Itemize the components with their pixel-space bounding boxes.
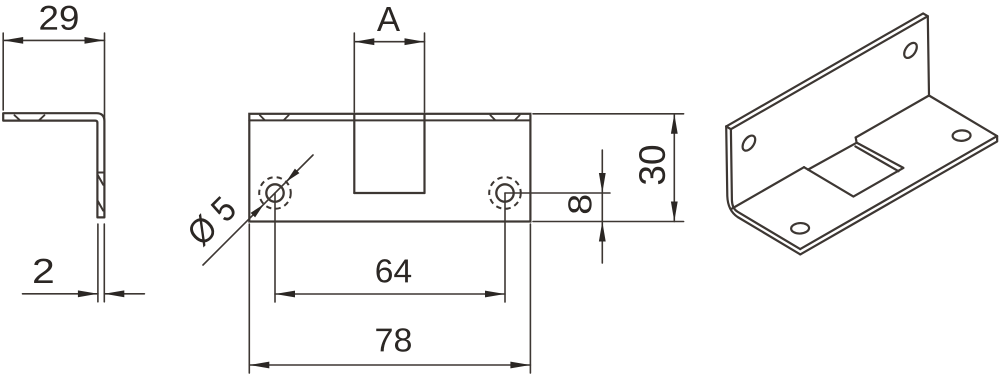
front view bend tick marks right: [490, 115, 495, 120]
3D view fold line left segment: [732, 167, 804, 208]
hole 2 circle: [496, 184, 513, 201]
dimension 29 text: [40, 6, 77, 30]
dimension 78 text: [376, 328, 411, 352]
dimension 29 extension lines: [2, 33, 4, 110]
dimension 2 text: [34, 259, 53, 283]
hole 1 circle: [266, 184, 283, 201]
dimension 64 text: [376, 259, 411, 283]
dimension A extension lines: [353, 33, 355, 112]
dimension 8 text: [568, 195, 592, 213]
dimension 29 line: [3, 39, 104, 41]
front view outline rectangle: [249, 114, 530, 222]
3D view hole horizontal flange right: [949, 128, 974, 143]
dimension 2 line: [23, 293, 98, 295]
dimension 78 line: [249, 364, 530, 366]
dimension 78 extension lines: [248, 224, 250, 373]
dimension A line: [354, 41, 424, 43]
hole centre extension lines: [274, 193, 276, 302]
dimension 30 text: [639, 146, 665, 184]
3D view notch: [804, 138, 903, 197]
hole 1 leader arrows: [286, 169, 299, 182]
front view bend tick marks left: [260, 115, 265, 120]
front view fold line: [249, 119, 530, 121]
diameter 5 text: [185, 194, 238, 247]
dimension 30 line: [673, 114, 675, 222]
hole leader line: [203, 155, 313, 265]
dimension 30 extension lines: [533, 113, 684, 115]
3D view hole vertical flange right: [904, 40, 917, 60]
side view bend tick marks: [14, 115, 20, 120]
side view break line: [97, 172, 104, 174]
dimension 8 extension line: [505, 192, 610, 194]
3D view hole horizontal flange left: [787, 221, 812, 236]
dimension 64 line: [275, 293, 505, 295]
front view notch: [353, 114, 355, 193]
3D view hole vertical flange left: [742, 133, 755, 153]
dimension 8 line: [601, 150, 603, 193]
dimension 2 extension lines: [97, 224, 99, 302]
3D view vertical flange outline: [726, 13, 929, 254]
3D view fold line right segment: [856, 96, 929, 138]
dimension A text: [377, 7, 400, 31]
side view L-profile outline: [3, 113, 104, 217]
3D view horizontal flange outline: [800, 96, 997, 255]
side view break tick 2: [98, 201, 104, 211]
